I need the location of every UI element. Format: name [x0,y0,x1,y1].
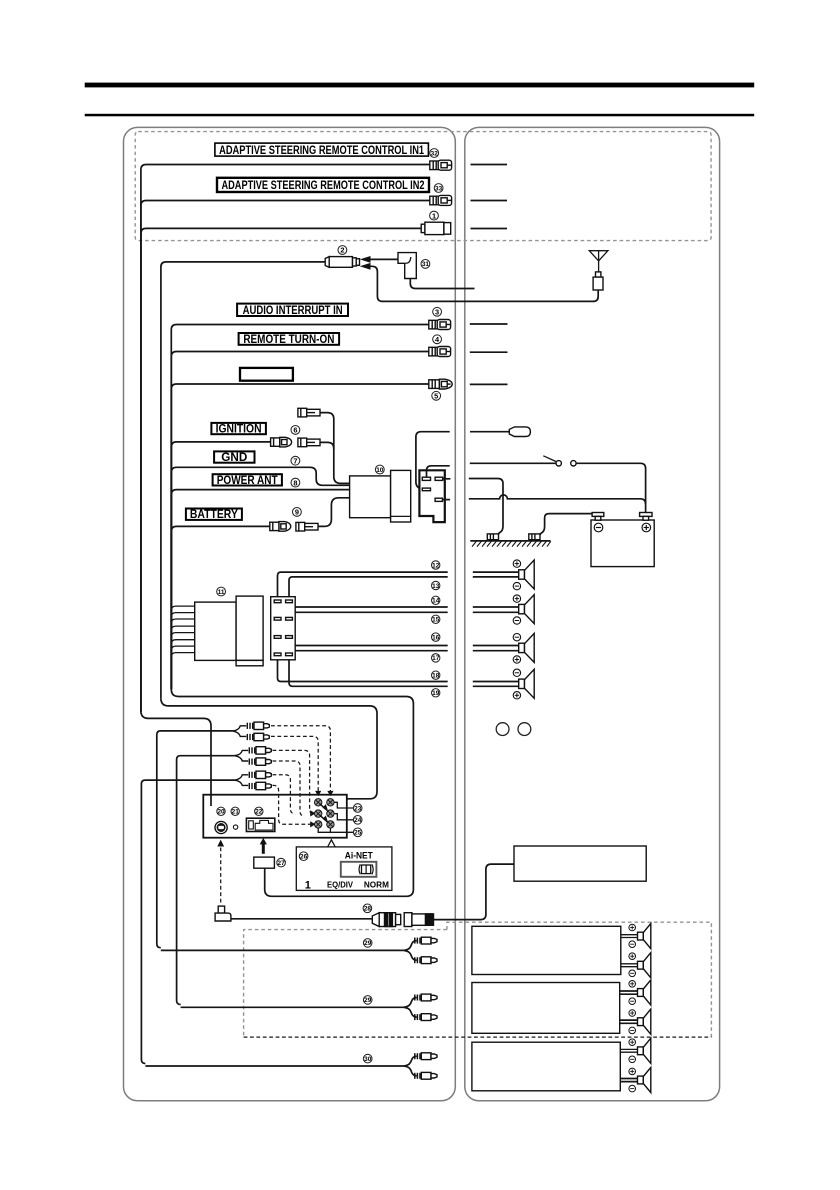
speaker 2 minus [513,617,520,624]
vehicle antenna symbol [589,251,608,272]
arrow into jack T2 [327,791,333,796]
circled 22 [255,807,263,816]
spade pair 6 [271,437,292,447]
arrow into jack 2 upper [360,256,371,263]
circled 26 [299,852,308,861]
svg-text:21: 21 [232,809,240,816]
connector 1 (cylindrical plug) [421,222,450,234]
rca pair B top plug [236,747,272,756]
wire 32 steering remote in1 [141,165,430,713]
cable pair B down wire [177,756,236,1005]
front right speaker wires [473,606,519,608]
circled 29 first [363,939,372,948]
head unit rear panel [203,795,346,838]
wire 1 [141,228,421,712]
arrow into jack T1 [315,791,321,796]
header rule thin [85,114,755,117]
circled 24 [353,816,362,825]
right-angle din plug [215,906,231,921]
circled 7 [291,456,300,465]
amp speaker 5 wires [620,1048,637,1050]
circled 32 [430,149,439,158]
harness comb wires into connector 11 [171,606,194,657]
antenna plug body [596,272,601,277]
speaker 4 plus [513,692,520,699]
svg-text:29: 29 [364,997,372,1004]
crossover link M1 to B2 [320,815,327,822]
arrow into jack 2 lower (vehicle antenna lead) [360,263,371,270]
rca jack B2 [327,821,334,828]
amp speaker 4 plus [629,1010,636,1017]
svg-text:3: 3 [435,308,439,317]
rca pair A bottom plug [234,731,270,740]
rear left speaker [519,633,535,662]
dashed lead pair A bottom to jack T1 [271,736,318,792]
amplifier box 1 [472,926,621,974]
circled 12 [432,561,440,570]
circled 21 [231,807,239,816]
connector 33 [430,195,452,205]
circled 27 [277,858,286,867]
svg-text:ADAPTIVE STEERING REMOTE CONTR: ADAPTIVE STEERING REMOTE CONTROL IN2 [222,178,425,192]
rca jack M2 [327,810,334,817]
circled 9 [293,508,302,517]
amp speaker 3 plus [629,981,636,988]
circled 11 [217,587,226,596]
fuse terminal 1 [422,477,430,480]
front left speaker [519,560,535,589]
amp speaker 2 [638,953,651,978]
front right speaker [519,595,535,624]
circled 10 [375,465,384,474]
svg-text:29: 29 [364,940,372,947]
aux small jack 21 [233,825,237,829]
speaker 4 minus [513,669,520,676]
amp speaker 6 plus [629,1068,636,1075]
cable 29a run [161,949,405,951]
connector 4 [429,347,451,357]
rear right speaker [519,669,535,698]
label REMOTE TURN-ON [239,333,340,346]
stub line 3 vehicle side [470,323,508,325]
svg-text:POWER ANT: POWER ANT [217,475,278,487]
circled 2 [338,246,347,255]
amp speaker 1 plus [629,924,636,931]
label GND [214,451,254,464]
circled 33 [434,184,443,193]
wire 5 [171,384,428,689]
amp speaker 4 wires thick [620,1019,638,1021]
circled 29 second [363,996,372,1005]
amp speaker 1 wires [621,934,638,936]
jumper from spade 6 [320,442,334,448]
svg-text:8: 8 [293,478,297,487]
amp speaker 4 [638,1009,651,1034]
switch lever [543,456,556,462]
wire 9 battery [171,526,269,689]
svg-text:14: 14 [432,598,440,605]
wire battery to fusebox [318,498,350,527]
rca jack B1 [315,821,322,828]
block terminals [274,600,292,656]
din jack 20 [215,821,227,833]
battery plus terminal symbol [642,523,651,532]
circled 31 [421,260,430,269]
svg-text:22: 22 [255,809,263,816]
cable pair A down wire [157,731,234,948]
svg-text:24: 24 [354,817,362,824]
male spade ignition upper [298,408,320,417]
circled 8 [291,478,300,487]
switch contact a [556,461,561,466]
speaker wire pair 12/13 from block [278,572,448,600]
wire 4 remote turn-on [171,352,428,690]
leader to circled 24 [334,814,353,820]
circled 13 [432,581,440,590]
cable 29b Y split [404,998,416,1018]
battery minus terminal symbol [594,523,603,532]
svg-text:ADAPTIVE STEERING REMOTE CONTR: ADAPTIVE STEERING REMOTE CONTROL IN1 [219,143,424,157]
stub line 5 vehicle side [470,383,508,385]
svg-text:NORM: NORM [364,879,389,889]
switch wire left [470,462,556,464]
ground lug 2 [529,534,540,540]
arrow 27 into socket 22 [262,842,265,854]
speaker 3 plus [513,656,520,663]
ground bar [470,540,550,542]
svg-text:REMOTE TURN-ON: REMOTE TURN-ON [243,334,334,346]
relay box 10 right block [391,470,411,522]
callout caret to ai-net detail box [328,840,336,847]
rca jack T1 [315,799,322,806]
rca plug 30 top [415,1053,437,1060]
amp speaker 6 wires thick [620,1078,637,1080]
svg-text:1: 1 [432,211,436,220]
stub line 32 vehicle side [471,164,508,166]
connector 11 head [236,596,263,660]
male spade 9 vehicle [296,522,318,531]
svg-text:25: 25 [354,830,362,837]
label BATTERY [186,509,242,522]
speaker wire pair 16/17 from block [278,638,448,645]
amp speaker 3 [638,980,651,1005]
circled 17 [432,654,440,663]
svg-text:12: 12 [432,562,440,569]
stub line 4 vehicle side [470,351,508,353]
leader to circled 25 [318,828,353,832]
circled 15 [432,615,440,624]
stub line 1 vehicle side [471,228,508,230]
switch wire right to battery plus [576,463,645,512]
label ADAPTIVE STEERING REMOTE CONTROL IN1 [215,143,429,157]
rca plug 29a top [415,937,437,944]
circled 16 [432,633,440,642]
stub fuse t2 to panel [443,478,451,480]
fuse terminal 2 [435,477,443,480]
wire antenna bus down to rca block loop [161,698,377,799]
svg-text:5: 5 [434,392,438,401]
crossover link T1 to M2 [320,804,327,811]
speaker 1 plus [513,560,520,567]
speaker wire pair 14/15 from block [278,607,448,618]
relay box 10 [350,476,391,518]
empty label box [240,368,293,381]
amplifier box 2 [472,983,620,1034]
speaker 3 minus [513,634,520,641]
dashed arrow din plug to jack 20 [220,848,222,904]
svg-text:17: 17 [432,655,440,662]
rca plug 29b bottom [415,1014,437,1021]
leader to circled 23 [334,802,353,808]
gnd wire right panel to lug1 [469,479,503,535]
svg-text:20: 20 [217,809,225,816]
power supply box 27 [254,857,275,868]
amp speaker 2 minus [629,970,636,977]
svg-text:EQ/DIV: EQ/DIV [327,879,353,889]
rca pair C top plug [236,771,272,780]
connector 11 base strip [236,660,263,665]
amp speaker 1 [638,924,651,949]
rca plug 29a bottom [415,957,437,964]
svg-text:11: 11 [218,589,225,596]
right panel (vehicle side) [465,127,720,1100]
spade pair 9 [270,522,291,532]
connector 2 antenna jack [325,257,359,268]
switch contact b [571,461,576,466]
circled 19 [432,689,440,698]
ai-net cable connector male [404,913,433,927]
rca plug 29b top [415,994,437,1001]
amp speaker 6 [638,1067,651,1092]
svg-text:13: 13 [432,583,440,590]
label IGNITION [211,423,266,436]
circled 30 [363,1054,372,1063]
wire into head unit interior [210,795,212,806]
svg-text:IGNITION: IGNITION [216,424,262,436]
amplifier box 3 [472,1042,620,1091]
ai-net cable connector female [372,913,400,927]
amp speaker 1 minus [629,941,636,948]
amp speaker 2 plus [629,953,636,960]
svg-text:28: 28 [364,906,372,913]
rear right speaker wires [473,681,519,683]
front left speaker wires [473,571,519,573]
cable 30 run [145,1065,404,1067]
fuse terminal 4 [435,498,442,501]
cable 29b run [181,1006,405,1008]
equalizer box on ai-net [514,846,646,881]
ai-net switch detail box [296,847,392,891]
amplifiers dashed group box [244,922,712,1037]
label AUDIO INTERRUPT IN [237,304,348,317]
header rule thick [85,83,755,88]
fuse terminal 3 [422,488,430,491]
circled 3 [433,307,442,316]
svg-text:30: 30 [364,1056,372,1063]
amp speaker 5 minus [629,1056,636,1063]
connector 31 right-angle antenna plug [398,253,416,279]
circled 14 [432,596,440,605]
svg-text:9: 9 [295,508,299,517]
switch slider [341,862,377,877]
connector 3 [429,320,451,330]
cable 28 ai-net cord [231,918,373,920]
svg-text:1: 1 [305,879,311,891]
steering remote dashed group box [135,132,711,241]
amp speaker 3 minus [629,998,636,1005]
speaker 1 minus [513,582,520,589]
wire fuse t1 up to ignition stub [427,466,450,477]
wire 3 audio interrupt [171,325,428,690]
label POWER ANT [213,474,282,487]
connector 11 body [195,602,236,660]
speaker 2 plus [513,595,520,602]
dashed lead pair A top to jack T2 [271,726,330,792]
battery constant wire right panel [469,495,646,504]
circled 1 [430,211,439,220]
connector 5 female spade [429,379,452,389]
circled 20 [217,807,225,816]
male spade 6 vehicle [298,438,320,447]
tweeter circle a [496,723,509,736]
svg-text:6: 6 [293,426,297,435]
speaker wire pair 18/19 from block [278,656,448,682]
circled 25 [353,828,362,837]
svg-text:10: 10 [376,467,384,474]
circled 4 [433,335,442,344]
svg-text:7: 7 [293,456,297,465]
amp speaker 6 minus [629,1085,636,1092]
svg-text:32: 32 [431,150,439,157]
circled 6 [291,426,300,435]
stub line 33 vehicle side [471,200,508,202]
svg-text:31: 31 [422,261,430,268]
power antenna lead wire [416,432,450,489]
battery minus lead to lug2 [540,514,592,536]
amp speaker 5 [638,1038,651,1063]
speaker terminal block [271,597,296,660]
left panel (vehicle harness side) [124,127,456,1100]
wire 2 antenna extension [161,262,325,698]
power antenna bullet connector [509,427,530,437]
svg-text:26: 26 [300,854,308,861]
stub fuse t4 to panel [442,499,450,501]
svg-text:AUDIO INTERRUPT IN: AUDIO INTERRUPT IN [243,305,343,317]
vehicle fuse connector [419,470,444,522]
svg-text:19: 19 [432,690,440,697]
arrow into jack B1 [310,821,315,827]
svg-text:GND: GND [221,452,247,464]
rca plug 30 bottom [415,1072,437,1079]
wire from plug 31 [410,279,474,289]
svg-text:2: 2 [340,246,344,255]
battery minus post [592,513,604,517]
svg-text:33: 33 [435,185,443,192]
svg-text:BATTERY: BATTERY [190,509,238,521]
wire 6 ignition [171,442,270,689]
ground lug 1 [487,534,498,540]
wire loop harness bus to unit connector box [171,689,413,896]
wire 8 power ant [171,490,349,690]
svg-text:23: 23 [354,805,362,812]
rca pair A top plug [234,722,270,731]
wire 7 gnd [171,467,349,689]
wire remote bus into head unit [141,711,211,806]
svg-text:15: 15 [432,617,440,624]
dashed lead pair B bottom [273,761,304,816]
label ADAPTIVE STEERING REMOTE CONTROL IN2 [217,178,429,192]
ground hatching [472,541,551,547]
dashed lead pair B top to jack M1 [273,750,313,813]
svg-text:16: 16 [432,634,440,641]
svg-text:18: 18 [432,673,440,680]
jumper wire ignition chain [320,413,350,484]
circled 23 [353,804,362,813]
connector 32 [430,160,452,170]
dashed group bottom edge [244,1036,712,1038]
rca pair C bottom plug [236,780,272,789]
dashed lead pair C top [273,775,295,814]
circled 5 [432,391,441,400]
cable 30 Y split [404,1056,416,1076]
circled 18 [432,671,440,680]
dashed lead pair C bottom to jack B1 [273,785,311,824]
arrow into jack M1 [310,810,315,816]
car battery [591,520,654,567]
wire 33 steering remote in2 [141,201,430,713]
amp speaker 2 wires [621,963,638,965]
circled 28 [363,904,372,913]
svg-text:27: 27 [278,860,286,867]
cable 29a Y split [404,941,416,961]
battery plus post [640,513,652,517]
amp speaker 5 plus [629,1039,636,1046]
amp speaker 3 wires thick [620,990,638,992]
rear left speaker wires [473,645,519,647]
cable pair C down wire [141,780,235,1063]
ai-net socket 22 [246,818,274,831]
rca jack T2 [327,799,334,806]
rca pair B bottom plug [236,756,272,765]
tweeter circle b [518,723,531,736]
rca jack M1 [315,810,322,817]
amp speaker 4 minus [629,1027,636,1034]
svg-text:Ai-NET: Ai-NET [345,851,373,862]
